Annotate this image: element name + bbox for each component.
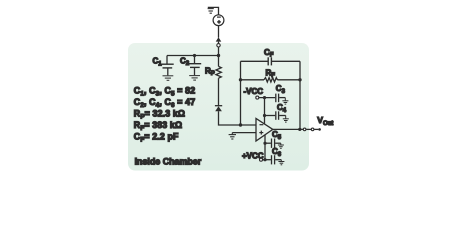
node C4 tap bbox=[263, 114, 266, 117]
wire CF branch right bbox=[272, 60, 300, 62]
capacitor C4 bbox=[276, 111, 279, 120]
wire ground to source bbox=[208, 7, 219, 14]
node output bbox=[298, 128, 301, 131]
node C2 top bbox=[193, 54, 196, 57]
wire C3 to ground bbox=[279, 97, 285, 99]
ground (non-inverting) bbox=[229, 133, 236, 139]
wire terminal to node A bbox=[218, 47, 220, 66]
wire C6 to ground bbox=[275, 159, 281, 161]
capacitor C2 bbox=[189, 56, 202, 76]
capacitor C3 bbox=[276, 94, 279, 103]
resistor Rp bbox=[216, 66, 221, 78]
wire non-inverting input bbox=[232, 132, 256, 134]
node A bbox=[217, 54, 220, 57]
svg-text:-VCC: -VCC bbox=[244, 87, 264, 96]
wire Rp to diode bbox=[218, 78, 220, 105]
wire CF branch left bbox=[241, 60, 268, 62]
feedthrough arrow bbox=[216, 37, 222, 41]
wire +VCC to C6 bbox=[263, 159, 271, 161]
wire RF branch left bbox=[241, 79, 265, 81]
node V- tap bbox=[263, 96, 266, 99]
ground (C5) bbox=[278, 143, 284, 148]
capacitor C1 bbox=[161, 56, 174, 76]
ground (top, source reference) bbox=[208, 9, 214, 14]
ground (C6) bbox=[278, 160, 284, 165]
op-amp U1 bbox=[256, 118, 273, 141]
capacitor C6 bbox=[272, 155, 275, 164]
wire V+ supply vertical bbox=[264, 135, 266, 160]
terminal +VCC bbox=[260, 158, 263, 161]
wire feedback right vertical bbox=[299, 61, 301, 129]
resistor RF bbox=[264, 78, 277, 82]
wire diode to inverting input bbox=[219, 111, 257, 125]
wire feedback left vertical bbox=[240, 61, 242, 125]
source V1 (sensor) bbox=[213, 15, 224, 26]
wire -VCC to C3 bbox=[259, 97, 275, 99]
wire C5 to ground bbox=[275, 142, 281, 144]
wire C4 left bbox=[265, 115, 276, 117]
wire top-left (to C1, C2) bbox=[167, 55, 219, 57]
wire arrow to terminal bbox=[218, 42, 220, 44]
wire C4 to ground bbox=[279, 115, 286, 117]
svg-text:VOut: VOut bbox=[317, 115, 333, 127]
diode D1 bbox=[215, 106, 222, 112]
connector (output feedthrough) bbox=[303, 128, 321, 131]
chamber box bbox=[128, 43, 309, 171]
ground (C1) bbox=[163, 76, 174, 81]
capacitor CF bbox=[268, 57, 271, 65]
wire C5 left bbox=[265, 142, 271, 144]
capacitor C5 bbox=[272, 139, 275, 148]
svg-text:Inside Chamber: Inside Chamber bbox=[135, 156, 202, 166]
node V+ corner bbox=[263, 158, 266, 161]
feedthrough terminal bbox=[217, 44, 220, 47]
ground (C4) bbox=[283, 116, 289, 123]
node RF left bbox=[239, 78, 242, 81]
ground (C2) bbox=[189, 76, 200, 81]
node C5 tap bbox=[263, 142, 266, 145]
wire output bbox=[273, 128, 303, 130]
terminal -VCC bbox=[256, 96, 259, 99]
node RF right bbox=[298, 78, 301, 81]
wire source to feedthrough bbox=[218, 26, 220, 38]
wire V- supply vertical bbox=[264, 98, 266, 124]
node B (feedback tap) bbox=[239, 123, 242, 126]
wire RF branch right bbox=[277, 79, 300, 81]
ground (C3) bbox=[282, 98, 288, 105]
